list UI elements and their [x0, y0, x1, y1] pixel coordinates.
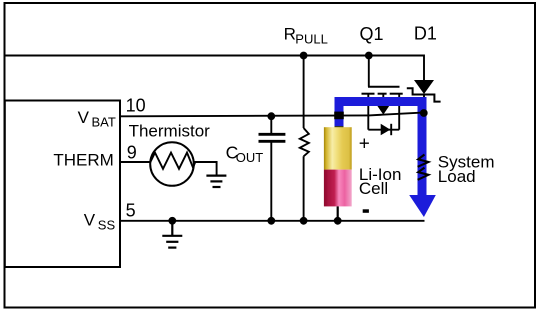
svg-text:OUT: OUT	[236, 150, 263, 165]
node: Q1 gate junction	[365, 52, 373, 60]
svg-text:Q1: Q1	[360, 24, 384, 44]
transistor Q1 drain tick	[398, 94, 400, 130]
ground symbol at thermistor	[206, 176, 226, 187]
thermistor RT1 zigzag	[150, 153, 195, 169]
label battery minus	[363, 209, 369, 213]
node: cell bottom junction	[334, 217, 342, 225]
transistor Q1 channel dashes	[362, 93, 403, 95]
system load zigzag marks on blue path	[418, 155, 429, 167]
transistor Q1 source tick	[367, 94, 369, 130]
svg-text:Load: Load	[438, 167, 476, 186]
svg-text:V: V	[78, 108, 90, 127]
svg-text:PULL: PULL	[295, 32, 328, 47]
battery cell cap	[335, 126, 344, 130]
svg-text:BAT: BAT	[92, 115, 116, 130]
svg-text:+: +	[359, 134, 370, 155]
transistor Q1 gate lead	[368, 56, 370, 87]
diode D1 triangle	[414, 80, 434, 94]
svg-text:9: 9	[127, 143, 137, 163]
svg-text:D1: D1	[414, 23, 437, 43]
transistor Q1 gate bar	[368, 86, 400, 88]
battery cell bottom (magenta)	[324, 170, 352, 207]
capacitor COUT plates	[259, 133, 286, 136]
ground symbol at VSS rail	[162, 221, 182, 248]
node: RPULL bottom junction	[300, 217, 308, 225]
resistor RPULL zigzag	[300, 128, 309, 156]
wire: THERM pin to thermistor and ground	[120, 162, 217, 176]
transistor Q1 body diode rail	[368, 129, 399, 131]
node: COUT top junction	[267, 112, 275, 120]
node: COUT bottom junction	[267, 217, 275, 225]
diode D1 cathode lead	[423, 95, 425, 114]
battery cell top (yellow)	[324, 127, 352, 169]
resistor RPULL leads	[303, 56, 305, 129]
wire: Q1 source rail over blue to D1 node	[369, 112, 425, 115]
svg-text:Thermistor: Thermistor	[129, 121, 211, 140]
transistor Q1 bulk tick	[382, 94, 384, 106]
blue power path to system load	[335, 97, 436, 217]
svg-text:10: 10	[126, 95, 146, 115]
svg-text:THERM: THERM	[53, 151, 113, 170]
svg-text:R: R	[284, 24, 296, 43]
wire: VBAT rail pin10 to battery	[120, 114, 369, 117]
wire: top supply rail	[5, 56, 424, 81]
svg-text:Cell: Cell	[359, 179, 388, 198]
transistor Q1 body diode	[381, 124, 391, 135]
battery negative lead	[337, 206, 339, 220]
node: ground rail junction	[168, 217, 176, 225]
thermistor RT1 circle	[150, 142, 194, 186]
svg-text:5: 5	[126, 201, 136, 221]
IC U1 box	[5, 101, 120, 268]
svg-text:SS: SS	[98, 218, 116, 233]
wire: VSS ground rail pin5	[120, 220, 425, 222]
capacitor COUT leads	[270, 116, 272, 134]
svg-text:V: V	[84, 211, 96, 230]
transistor Q1 bulk arrow	[377, 105, 390, 114]
node: D1 cathode junction	[420, 109, 428, 117]
diode D1 schottky cathode bar	[407, 88, 441, 101]
node: battery positive junction	[334, 112, 344, 120]
node: RPULL top junction	[300, 52, 308, 60]
